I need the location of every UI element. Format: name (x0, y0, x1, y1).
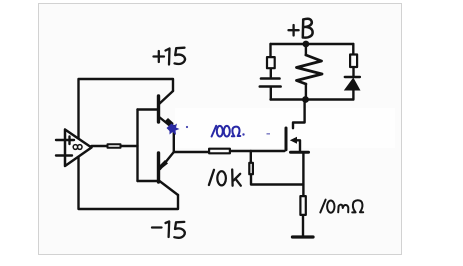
wire (352, 68, 354, 76)
transistor Q1 emitter arrowhead (165, 118, 174, 128)
label +15 (154, 51, 165, 62)
ground (293, 235, 314, 238)
blue ink dot (242, 133, 244, 135)
transistor Q2 PNP base bar (157, 153, 160, 182)
diode D1 cathode bar (345, 76, 360, 78)
mosfet M1 source bar (291, 151, 309, 154)
resistor R 100ohm (209, 149, 230, 154)
resistor R-opamp-out (108, 144, 121, 148)
transistor Q1 emitter (159, 117, 172, 128)
wire +B bottom rail (271, 98, 354, 100)
wire common base line (136, 110, 138, 182)
label 10k (209, 170, 214, 185)
wire (270, 88, 272, 100)
blue ink speck (186, 126, 188, 128)
wire +B top rail (271, 43, 354, 45)
transistor Q2 collector (160, 181, 179, 195)
diode D1 triangle (344, 78, 361, 91)
wire gate (231, 150, 285, 152)
resistor R-right (+B) (350, 55, 357, 68)
node dot bottom (+B) (302, 96, 309, 103)
transistor Q1 collector (159, 91, 174, 105)
wire op-amp V- to -15 rail (79, 155, 179, 209)
wire middle branch top (305, 44, 307, 55)
capacitor C1 top plate (261, 77, 280, 80)
wire base stub top (138, 108, 158, 110)
label -15 (152, 226, 162, 228)
mosfet M1 gate bar (285, 128, 288, 150)
wire output node to gate resistor (174, 151, 208, 153)
scan panel background (39, 4, 402, 255)
wire 10k junction drop (250, 151, 252, 162)
wire (270, 69, 272, 77)
op-amp U1 (65, 130, 92, 167)
mosfet M1 body arrow (290, 137, 297, 144)
wire 10k to source (251, 175, 303, 185)
capacitor C1 bottom plate (260, 85, 281, 88)
wire right branch top (352, 44, 354, 53)
wire left branch top (269, 44, 271, 56)
wire (352, 91, 354, 100)
wire to ground (302, 216, 304, 236)
transistor Q2 emitter (160, 152, 174, 169)
resistor R 10mohm (300, 196, 305, 215)
label 100ohm blue (212, 126, 241, 137)
wire to bases (122, 145, 138, 147)
wire source down (302, 152, 304, 195)
wire op-amp output (92, 145, 107, 147)
blue ink splat on Q1 emitter (167, 124, 180, 136)
mosfet M1 drain segment (293, 100, 305, 129)
wire base stub bottom (138, 180, 158, 182)
label +B (289, 25, 299, 36)
transistor Q1 NPN base bar (157, 96, 160, 122)
resistor R 10k (249, 163, 253, 174)
wire emitter junction (173, 126, 175, 152)
wire (305, 84, 307, 100)
wire +15 rail (79, 79, 174, 141)
transistor Q2 emitter arrowhead (159, 160, 168, 170)
resistor R-zigzag (297, 55, 323, 84)
label 10m-ohm (320, 200, 363, 213)
blue ink dash (267, 133, 271, 135)
resistor R-left (+B) (267, 57, 275, 68)
node dot top (+B) (303, 41, 310, 48)
watermark-erased white patch (175, 108, 395, 148)
op-amp + input (56, 137, 74, 145)
mosfet M1 arrow tail (297, 140, 301, 151)
op-amp - input (56, 154, 72, 156)
op-amp infinity mark (73, 145, 82, 150)
